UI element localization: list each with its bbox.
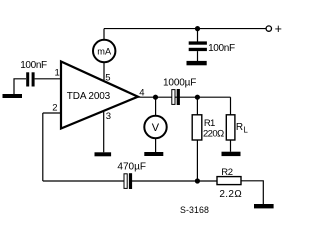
- capacitor C2 100nF decoupling: [189, 41, 207, 51]
- wire feedback bottom left: [43, 180, 124, 182]
- pin 5 wire: [103, 63, 105, 80]
- capacitor C4 470uF (electrolytic): [124, 173, 132, 189]
- wire output rail: [138, 96, 231, 98]
- pin 2 wire: [43, 112, 61, 114]
- ground RL: [222, 152, 241, 156]
- wire 470uF to R2: [132, 180, 217, 182]
- wire supply rail top: [104, 28, 266, 30]
- node output / R1: [195, 95, 200, 100]
- wire R1 to feedback node: [196, 140, 198, 181]
- svg-text:100nF: 100nF: [208, 43, 235, 54]
- wire node to R1: [196, 97, 198, 115]
- svg-text:5: 5: [105, 72, 110, 83]
- node junction rail / C2: [195, 26, 200, 31]
- svg-text:2: 2: [52, 103, 57, 114]
- svg-text:S-3168: S-3168: [180, 205, 209, 215]
- capacitor C3 1000uF (electrolytic): [172, 89, 180, 105]
- ground pin 3: [95, 152, 112, 156]
- svg-text:470µF: 470µF: [117, 161, 146, 172]
- ammeter mA: [93, 40, 115, 62]
- svg-text:L: L: [243, 126, 248, 135]
- svg-text:R2: R2: [221, 167, 232, 178]
- svg-text:1000µF: 1000µF: [163, 78, 196, 89]
- svg-text:R: R: [236, 122, 243, 133]
- ground input: [3, 94, 23, 98]
- capacitor C1 100nF input: [26, 72, 34, 86]
- resistor RL load: [226, 115, 235, 140]
- resistor R1 220 ohm: [192, 115, 202, 140]
- wire node to voltmeter: [155, 97, 157, 116]
- svg-text:3: 3: [106, 111, 111, 122]
- ground R2: [254, 204, 274, 208]
- wire voltmeter to ground: [155, 138, 157, 152]
- terminal + supply: [266, 26, 271, 31]
- wire R2 to ground: [241, 181, 263, 204]
- svg-text:mA: mA: [97, 46, 112, 56]
- wire input ground to capacitor: [14, 79, 26, 95]
- wire junction to C2: [197, 29, 199, 42]
- op-amp U1 TDA 2003: [61, 62, 138, 129]
- node feedback / R1: [195, 178, 200, 183]
- svg-text:2.2Ω: 2.2Ω: [219, 189, 242, 200]
- svg-text:V: V: [152, 122, 160, 134]
- wire RL to ground: [230, 140, 232, 152]
- svg-text:1: 1: [55, 67, 60, 78]
- node output / voltmeter: [153, 95, 158, 100]
- pin 3 wire: [103, 111, 105, 152]
- svg-text:100nF: 100nF: [20, 60, 47, 71]
- voltmeter V: [144, 116, 166, 138]
- wire capacitor to pin 1: [35, 78, 61, 80]
- svg-text:+: +: [275, 22, 282, 36]
- wire output rail down to RL: [230, 97, 232, 115]
- wire C2 to ground: [197, 51, 199, 61]
- ground voltmeter: [144, 152, 163, 156]
- ground C2: [187, 61, 207, 65]
- wire ammeter to supply rail: [103, 29, 105, 40]
- resistor R2 2.2 ohm: [217, 177, 241, 185]
- svg-text:220Ω: 220Ω: [203, 128, 224, 139]
- svg-text:R1: R1: [204, 118, 215, 129]
- wire feedback vertical left: [42, 113, 44, 181]
- svg-text:TDA 2003: TDA 2003: [67, 91, 111, 102]
